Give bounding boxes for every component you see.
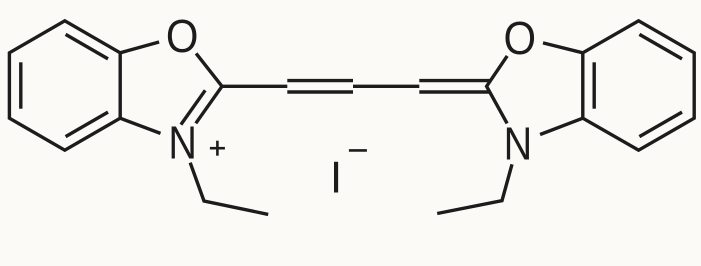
svg-text:N: N bbox=[504, 119, 533, 171]
svg-text:N: N bbox=[168, 117, 197, 169]
svg-text:I: I bbox=[330, 153, 342, 202]
svg-text:O: O bbox=[166, 11, 199, 63]
svg-text:O: O bbox=[504, 13, 537, 65]
